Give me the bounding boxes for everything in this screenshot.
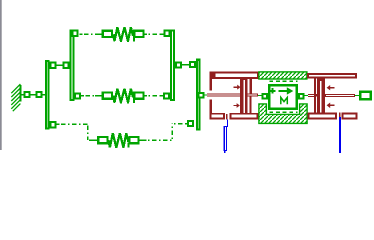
- right cylinder left wall: [314, 79, 316, 113]
- letter M in motor: [281, 97, 288, 104]
- node square bar C top: [165, 31, 170, 36]
- motor M dashed top: [269, 80, 297, 82]
- node square bar A bottom: [50, 122, 55, 127]
- wire bottom branch left: [57, 124, 60, 125]
- right cylinder top bar: [307, 73, 357, 79]
- window edge gray line: [0, 0, 2, 150]
- sensor tick left: [226, 114, 227, 119]
- node square bar B top: [73, 31, 78, 36]
- green stub rod to motor port: [258, 95, 262, 96]
- node square bar B bottom: [75, 94, 80, 99]
- node square bar D bottom: [188, 121, 193, 126]
- motor M box: [269, 85, 297, 109]
- rod piston to motor: [248, 93, 259, 96]
- green stub rod right end: [355, 95, 359, 96]
- rod piston right out: [325, 94, 355, 97]
- arrow in motor: [279, 90, 288, 92]
- spring R2 (middle): [81, 89, 164, 104]
- node square bar C right: [176, 62, 181, 67]
- left cylinder left wall lower: [210, 99, 212, 117]
- left cylinder right wall lower: [249, 97, 251, 114]
- plus sign in motor: [270, 88, 276, 94]
- rigid bar A: [46, 61, 49, 128]
- green stub bar D port to rod: [203, 94, 207, 95]
- left cylinder bottom foot left: [210, 113, 226, 120]
- node square bar D top-left: [190, 62, 195, 67]
- ground wall line: [20, 85, 22, 102]
- piston plate left: [240, 78, 248, 114]
- motor port right: [299, 94, 304, 99]
- right bottom bar right segment: [342, 113, 358, 120]
- node square s2: [36, 92, 41, 97]
- stator hatched top: [259, 72, 307, 79]
- wire dash-dot into spring R1: [80, 34, 83, 35]
- port box far right: [360, 92, 370, 100]
- rod stub wall to piston: [316, 94, 317, 96]
- spring R1 (top): [80, 27, 164, 42]
- left cylinder top wall: [210, 72, 260, 80]
- rod motor to right piston: [308, 94, 314, 97]
- node square at bar B left: [63, 63, 68, 68]
- signal wire blue left: [224, 120, 229, 154]
- rigid bar D: [196, 59, 201, 131]
- piston plate right: [317, 79, 325, 113]
- right bottom bar left segment: [308, 113, 338, 120]
- left cylinder left wall upper: [210, 72, 212, 91]
- arrow lower-left: [233, 103, 240, 108]
- arrow upper-right: [327, 85, 335, 90]
- left cylinder bottom foot right: [230, 113, 259, 120]
- port square bar D right (to actuator): [199, 93, 204, 98]
- motor M dashed bottom: [269, 111, 297, 113]
- ground wall hatch: [11, 84, 20, 111]
- wire A-top junction: [57, 65, 63, 66]
- piston rod left: [207, 93, 240, 96]
- wire C-D junction: [182, 64, 189, 65]
- sensor tick right: [339, 113, 341, 117]
- node square s1: [24, 92, 29, 97]
- rigid bar B: [71, 31, 74, 100]
- motor port left: [263, 94, 268, 99]
- signal wire blue right: [339, 117, 341, 153]
- arrow lower-right: [327, 103, 335, 109]
- stator hatched bottom channel: [259, 104, 307, 124]
- node square at bar A top: [50, 63, 55, 68]
- node square bar C bottom: [164, 93, 169, 98]
- rigid bar C: [171, 31, 174, 100]
- wire s1 to s2: [31, 94, 36, 95]
- left cylinder right wall upper: [250, 78, 252, 93]
- wire s2 to bar A: [43, 94, 45, 95]
- spring R3 (bottom): [92, 133, 147, 148]
- arrow upper-left: [233, 85, 240, 90]
- wire bottom branch right: [185, 123, 188, 124]
- wire wall to node: [22, 94, 24, 95]
- green stub motor port right: [304, 95, 308, 96]
